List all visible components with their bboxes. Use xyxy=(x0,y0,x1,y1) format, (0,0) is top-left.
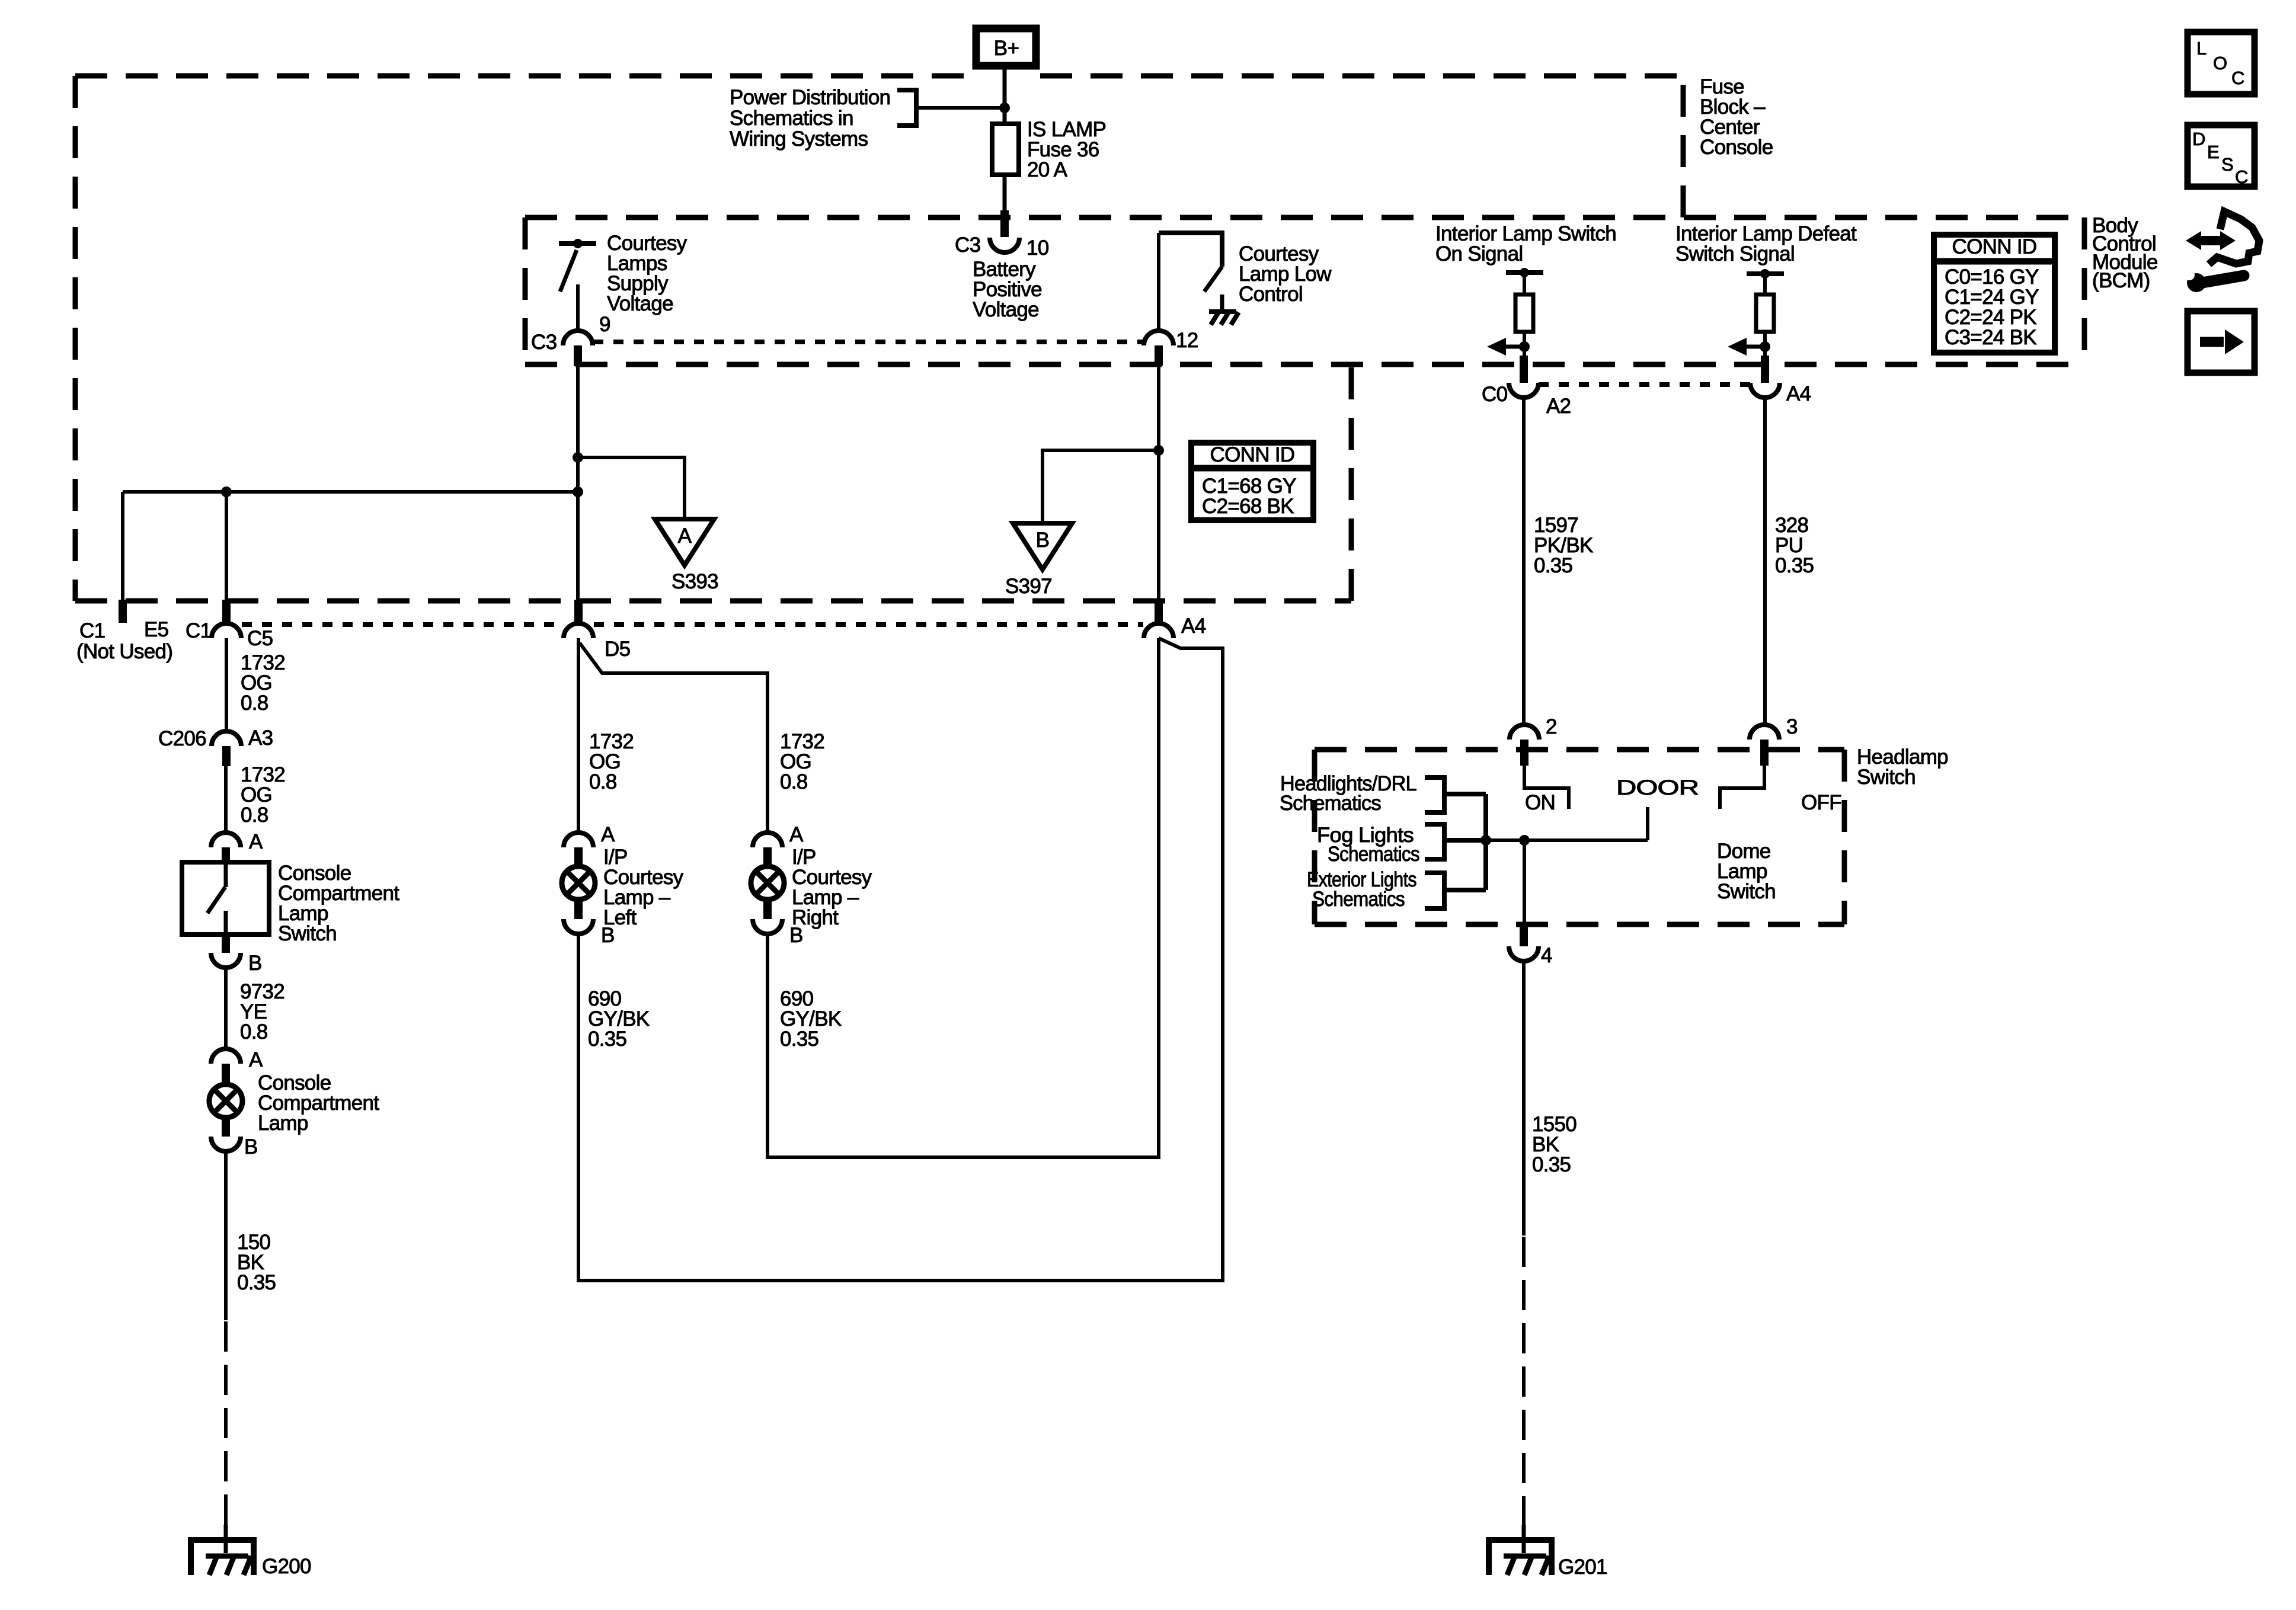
svg-text:0.8: 0.8 xyxy=(780,770,808,793)
label Fuse Block - Center Console xyxy=(1700,75,1773,159)
connector C0 pin A2 of BCM xyxy=(1482,356,1571,418)
connector pin A4 of BCM xyxy=(1750,356,1811,405)
svg-text:L: L xyxy=(2196,38,2207,59)
svg-text:C3: C3 xyxy=(531,331,557,354)
svg-text:Voltage: Voltage xyxy=(607,292,673,315)
wire right lamp B to A4 xyxy=(768,638,1159,1157)
label Dome Lamp Switch xyxy=(1717,840,1776,903)
icon BCM module outline xyxy=(2209,212,2259,264)
svg-text:A: A xyxy=(789,823,804,846)
label Console Compartment Lamp xyxy=(258,1071,379,1135)
pin 12 connector of fuse block xyxy=(1144,329,1198,366)
fuse block / BCM band top dashed edge xyxy=(525,215,2084,220)
label Battery Positive Voltage xyxy=(973,258,1042,321)
svg-text:A4: A4 xyxy=(1786,382,1811,405)
bracket fog lights schematics xyxy=(1425,824,1486,859)
arrow output interior lamp defeat signal xyxy=(1728,332,1770,356)
svg-text:G200: G200 xyxy=(262,1555,311,1578)
svg-text:A: A xyxy=(678,524,692,548)
wire pin 4 to G201 xyxy=(1522,961,1526,1540)
svg-text:B+: B+ xyxy=(994,37,1019,60)
svg-text:C: C xyxy=(2235,167,2248,187)
label wire 690 GY/BK 0.35 right xyxy=(780,987,842,1051)
dotted connector row C5-D5-A4 xyxy=(242,622,1143,627)
svg-text:E5: E5 xyxy=(144,618,168,641)
connector A console compartment lamp xyxy=(211,1048,263,1084)
svg-text:C1: C1 xyxy=(79,619,105,642)
switch interior lamp defeat signal driver xyxy=(1747,269,1784,295)
label IP Courtesy Lamp Left xyxy=(603,846,684,929)
icon LOC box xyxy=(2188,32,2255,94)
svg-text:4: 4 xyxy=(1541,944,1552,967)
svg-text:A3: A3 xyxy=(248,726,273,750)
bracket exterior lights schematics xyxy=(1425,873,1486,908)
label IP Courtesy Lamp Right xyxy=(792,846,872,929)
svg-text:CONN ID: CONN ID xyxy=(1952,235,2037,258)
table CONN ID BCM xyxy=(1934,235,2055,353)
switch contact ON xyxy=(1524,766,1569,814)
switch console compartment lamp xyxy=(182,862,269,934)
wire S397 branch xyxy=(1043,450,1159,523)
svg-text:B: B xyxy=(789,924,803,947)
lamp IP courtesy left xyxy=(562,866,595,900)
label wire 1732 OG 0.8 upper xyxy=(241,651,285,715)
wire pin 12 to A4 xyxy=(1157,366,1160,600)
wire switch B to lamp A xyxy=(224,968,228,1050)
svg-text:C0: C0 xyxy=(1482,383,1508,406)
ground G200 xyxy=(191,1525,311,1578)
svg-text:Switch: Switch xyxy=(1717,880,1776,903)
label wire 690 GY/BK 0.35 left xyxy=(588,987,650,1051)
wire C5 drop xyxy=(225,492,228,600)
icon DESC box xyxy=(2188,125,2255,187)
connector C1 pin E5 not used labels xyxy=(76,618,172,663)
pin 9 connector C3 of fuse block xyxy=(531,313,610,366)
svg-text:0.8: 0.8 xyxy=(589,770,617,793)
label IS LAMP Fuse 36 20 A xyxy=(1027,118,1106,181)
svg-text:3: 3 xyxy=(1786,715,1798,738)
label Headlamp Switch xyxy=(1857,745,1948,789)
junction bracket feeds xyxy=(1480,835,1491,846)
ground G201 xyxy=(1489,1525,1607,1579)
svg-text:CONN ID: CONN ID xyxy=(1210,443,1295,466)
wire lamp B to G200 xyxy=(224,1151,228,1540)
svg-text:G201: G201 xyxy=(1558,1555,1607,1579)
label Courtesy Lamps Supply Voltage xyxy=(607,232,687,315)
svg-text:C5: C5 xyxy=(247,627,273,650)
svg-text:S: S xyxy=(2221,154,2233,175)
wire common contact line xyxy=(1444,838,1648,842)
svg-text:Switch Signal: Switch Signal xyxy=(1675,242,1795,265)
svg-text:E: E xyxy=(2207,142,2219,162)
wire common to pin 4 xyxy=(1523,840,1526,922)
switch interior lamp switch on signal driver xyxy=(1506,268,1543,295)
switch contact OFF xyxy=(1720,766,1841,814)
svg-text:12: 12 xyxy=(1176,329,1198,352)
svg-text:0.8: 0.8 xyxy=(241,804,268,827)
wire fuse to pin 10 xyxy=(1003,175,1007,212)
lamp console compartment xyxy=(209,1084,242,1118)
pin 10 connector C3 of fuse block xyxy=(955,210,1049,260)
svg-text:ON: ON xyxy=(1525,791,1555,814)
svg-text:2: 2 xyxy=(1546,715,1557,738)
bracket headlights DRL schematics xyxy=(1425,777,1486,812)
svg-text:B: B xyxy=(248,952,262,975)
connector C1 pin C5 xyxy=(186,600,273,650)
connector B IP courtesy lamp left xyxy=(564,900,615,947)
svg-text:10: 10 xyxy=(1027,236,1049,260)
table CONN ID console harness xyxy=(1191,443,1313,520)
label wire 1732 OG 0.8 left lamp xyxy=(589,730,634,793)
svg-text:0.35: 0.35 xyxy=(237,1271,276,1294)
switch courtesy lamps supply voltage xyxy=(559,239,596,330)
junction B+ feed xyxy=(999,103,1010,113)
switch courtesy lamp low control xyxy=(1159,233,1222,330)
battery positive voltage symbol B+ xyxy=(976,28,1036,66)
icon BCM module double-arrow xyxy=(2186,231,2236,250)
label Courtesy Lamp Low Control xyxy=(1239,242,1332,306)
svg-text:Lamp: Lamp xyxy=(258,1112,308,1135)
svg-text:A: A xyxy=(249,1048,263,1071)
label Headlights/DRL Schematics xyxy=(1280,772,1416,815)
svg-text:Schematics: Schematics xyxy=(1312,888,1405,911)
connector pin 2 headlamp switch xyxy=(1510,715,1557,766)
svg-text:A4: A4 xyxy=(1181,614,1206,638)
label Exterior Lights Schematics xyxy=(1307,868,1416,911)
arrow output interior lamp on signal xyxy=(1487,332,1530,356)
wire E5 drop not used xyxy=(119,492,127,623)
icon arrow box xyxy=(2188,311,2255,373)
svg-text:0.35: 0.35 xyxy=(1534,554,1572,577)
svg-text:0.8: 0.8 xyxy=(240,1020,268,1044)
svg-text:Console: Console xyxy=(1700,136,1773,159)
svg-text:Control: Control xyxy=(1239,283,1303,306)
svg-text:0.8: 0.8 xyxy=(241,692,268,715)
svg-text:B: B xyxy=(601,924,615,947)
headlamp switch dashed box xyxy=(1315,750,1844,924)
svg-text:S397: S397 xyxy=(1005,575,1052,598)
splice S397 xyxy=(1005,523,1072,598)
svg-text:O: O xyxy=(2213,53,2227,73)
svg-text:0.35: 0.35 xyxy=(1775,554,1814,577)
svg-text:Schematics in: Schematics in xyxy=(730,107,853,130)
wire C206 to console switch xyxy=(224,766,228,834)
label Interior Lamp Defeat Switch Signal xyxy=(1675,222,1857,265)
junction S393 tap xyxy=(573,452,583,463)
bracket power distribution reference xyxy=(897,90,1005,126)
svg-text:S393: S393 xyxy=(671,570,718,593)
connector pin A4 console harness xyxy=(1144,600,1206,638)
resistor interior lamp defeat signal xyxy=(1756,295,1774,332)
dotted connector row C3 pins 9-12 xyxy=(593,340,1143,344)
wire C5 to C206 xyxy=(225,638,228,732)
fuse block / BCM band bottom dashed edge xyxy=(525,362,2084,367)
label wire 1550 BK 0.35 xyxy=(1532,1113,1576,1176)
fuse block sub-box left dashed edge xyxy=(523,217,528,364)
svg-text:A: A xyxy=(601,823,615,846)
svg-text:0.35: 0.35 xyxy=(780,1028,818,1051)
svg-text:(BCM): (BCM) xyxy=(2092,269,2150,292)
svg-text:OFF: OFF xyxy=(1801,791,1841,814)
label wire 150 BK 0.35 xyxy=(237,1231,276,1294)
svg-text:C: C xyxy=(2231,68,2244,88)
label wire 9732 YE 0.8 xyxy=(240,980,284,1044)
svg-text:DOOR: DOOR xyxy=(1616,776,1699,799)
svg-text:B: B xyxy=(1036,529,1050,552)
wire A2 to connector 2 xyxy=(1522,398,1526,725)
lamp IP courtesy right xyxy=(751,866,784,900)
label wire 1732 OG 0.8 right lamp xyxy=(780,730,824,793)
connector B console compartment lamp switch xyxy=(211,934,262,975)
label wire 328 PU 0.35 xyxy=(1775,514,1814,577)
wire D5 to left lamp xyxy=(577,638,580,834)
connector A IP courtesy lamp left xyxy=(564,823,615,866)
svg-text:A2: A2 xyxy=(1546,395,1571,418)
svg-text:9: 9 xyxy=(599,313,610,336)
connector C206 pin A3 xyxy=(158,726,273,766)
ground symbol courtesy lamp low control xyxy=(1209,295,1239,325)
svg-text:Voltage: Voltage xyxy=(973,298,1039,321)
fuse F36 IS LAMP 20A xyxy=(992,124,1019,175)
svg-text:(Not Used): (Not Used) xyxy=(76,640,172,663)
svg-text:Wiring Systems: Wiring Systems xyxy=(730,127,868,151)
wire A4 to connector 3 xyxy=(1763,398,1767,725)
svg-text:A: A xyxy=(249,830,263,853)
svg-text:C1: C1 xyxy=(186,619,211,642)
connector pin D5 xyxy=(564,600,630,661)
junction C5 tap xyxy=(221,486,232,497)
svg-text:0.35: 0.35 xyxy=(588,1028,626,1051)
connector B console compartment lamp xyxy=(211,1118,258,1158)
wire bracket feeds vertical xyxy=(1483,794,1488,890)
connector pin 4 headlamp switch xyxy=(1509,922,1552,967)
svg-text:Switch: Switch xyxy=(1857,766,1916,789)
wire S393 branch xyxy=(578,457,685,519)
svg-text:Power Distribution: Power Distribution xyxy=(730,86,890,109)
fuse block - center console outer dashed box xyxy=(75,76,1683,601)
svg-text:Switch: Switch xyxy=(278,922,337,945)
svg-text:B: B xyxy=(244,1135,258,1158)
connector A console compartment lamp switch xyxy=(211,830,263,865)
svg-text:C206: C206 xyxy=(158,727,206,750)
switch contact DOOR xyxy=(1616,776,1699,840)
wire B+ stem xyxy=(1003,66,1007,124)
wire left lamp B to A4 jog xyxy=(578,638,1223,1281)
svg-text:0.35: 0.35 xyxy=(1532,1153,1571,1176)
wire D5 jog to right lamp xyxy=(580,643,768,834)
connector pin 3 headlamp switch xyxy=(1750,715,1798,766)
junction dome lamp common xyxy=(1519,835,1530,846)
svg-text:Schematics: Schematics xyxy=(1328,843,1419,866)
splice S393 xyxy=(655,519,718,593)
label wire 1732 OG 0.8 lower xyxy=(241,763,285,827)
label Body Control Module (BCM) xyxy=(2092,214,2158,292)
BCM right dashed edge xyxy=(2082,217,2087,364)
svg-text:D5: D5 xyxy=(605,638,630,661)
label wire 1597 PK/BK 0.35 xyxy=(1534,514,1593,577)
dotted connector row C0 A2-A4 xyxy=(1539,382,1750,387)
svg-text:C3=24 BK: C3=24 BK xyxy=(1945,326,2036,349)
svg-text:On Signal: On Signal xyxy=(1435,242,1523,265)
label Console Compartment Lamp Switch xyxy=(278,862,399,945)
label Fog Lights Schematics xyxy=(1317,824,1419,866)
icon BCM module wrench xyxy=(2184,270,2244,292)
junction left harness tap xyxy=(573,486,583,497)
svg-text:C3: C3 xyxy=(955,233,980,257)
wire harness horizontal xyxy=(123,490,578,494)
svg-text:Schematics: Schematics xyxy=(1280,792,1381,815)
label Interior Lamp Switch On Signal xyxy=(1435,222,1616,265)
resistor interior lamp switch on signal xyxy=(1515,295,1533,332)
svg-text:20 A: 20 A xyxy=(1027,158,1068,181)
junction S397 tap xyxy=(1153,445,1164,456)
svg-text:D: D xyxy=(2192,129,2205,149)
connector A IP courtesy lamp right xyxy=(753,823,804,866)
svg-text:C2=68 BK: C2=68 BK xyxy=(1202,495,1294,518)
wire pin 9 to splices and D5 xyxy=(576,366,580,600)
label Power Distribution Schematics in Wiring Systems xyxy=(730,86,890,151)
connector B IP courtesy lamp right xyxy=(753,900,803,947)
